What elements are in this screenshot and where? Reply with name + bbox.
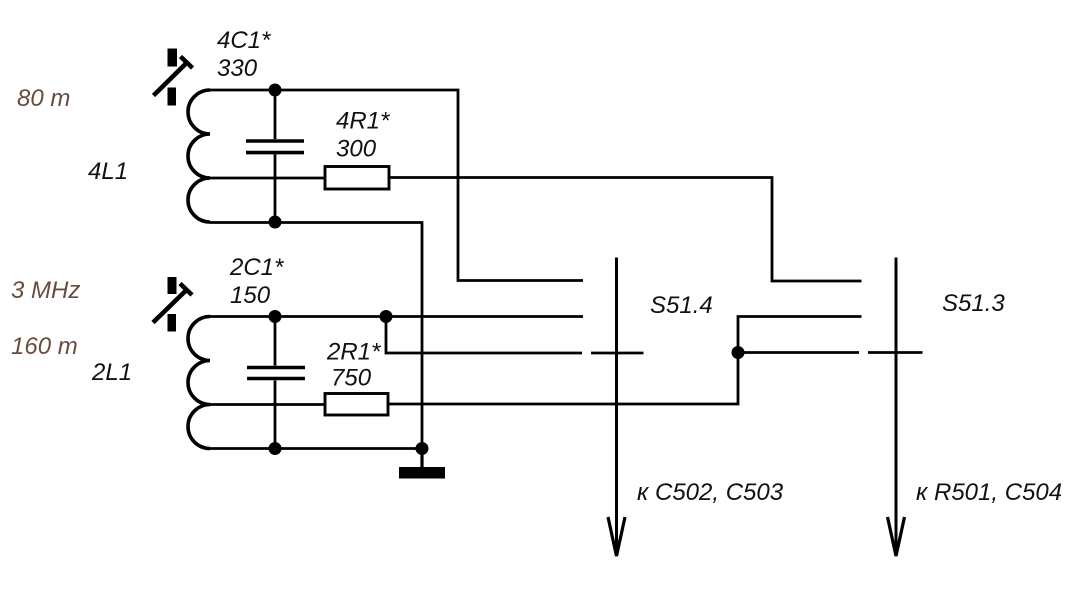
svg-text:750: 750 <box>331 365 372 392</box>
inductor 4L1 <box>188 90 210 222</box>
switch S51.3 wiper bar <box>868 351 923 354</box>
svg-text:4C1*: 4C1* <box>217 27 271 54</box>
svg-text:4R1*: 4R1* <box>336 108 390 135</box>
wire 2L1 tap to resistor 2R1 <box>210 403 326 406</box>
wire branch down to S51.4 wiper <box>386 317 582 354</box>
svg-text:80 m: 80 m <box>17 85 70 112</box>
node dot 4C1 bottom <box>269 216 282 229</box>
ground <box>399 449 445 479</box>
wire 4L1 top to S51.4 contact 1 <box>210 90 583 281</box>
wire 2L1 top to S51.4 contact 2 <box>210 315 583 318</box>
node dot 2C1 top <box>269 310 282 323</box>
switch S51.4 shaft arrow <box>608 258 625 557</box>
node dot S51.3 wiper <box>732 346 745 359</box>
node dot ground junction <box>416 442 429 455</box>
switch S51.3 shaft arrow <box>888 258 905 557</box>
trimmer core symbol of 2L1 <box>153 277 192 332</box>
wire 4L1 tap to resistor 4R1 <box>210 177 326 180</box>
svg-text:330: 330 <box>217 55 258 82</box>
svg-text:S51.3: S51.3 <box>942 290 1005 317</box>
node dot 2C1 bottom <box>269 442 282 455</box>
resistor 4R1 <box>325 167 389 190</box>
node dot 4C1 top <box>269 84 282 97</box>
wire node to S51.3 wiper <box>738 351 859 354</box>
switch S51.4 wiper bar <box>591 352 644 355</box>
wire 4L1 bottom to ground node <box>210 223 422 450</box>
capacitor 4C1 <box>246 90 304 222</box>
trimmer core symbol of 4L1 <box>154 49 193 106</box>
svg-text:300: 300 <box>336 136 377 163</box>
inductor 2L1 <box>188 317 210 449</box>
resistor 2R1 <box>325 394 388 416</box>
node dot branch <box>380 310 393 323</box>
svg-text:2L1: 2L1 <box>91 359 132 386</box>
wire 2L1 bottom to ground node <box>210 447 422 450</box>
svg-text:к C502, C503: к C502, C503 <box>637 479 784 506</box>
svg-text:к R501, C504: к R501, C504 <box>916 479 1062 506</box>
svg-text:4L1: 4L1 <box>88 158 128 185</box>
svg-text:2C1*: 2C1* <box>229 254 284 281</box>
capacitor 2C1 <box>247 317 305 449</box>
wire 4R1 to S51.3 contact 1 <box>389 178 862 282</box>
svg-text:3 MHz: 3 MHz <box>11 277 80 304</box>
svg-text:2R1*: 2R1* <box>326 339 381 366</box>
svg-text:160 m: 160 m <box>11 333 78 360</box>
svg-text:150: 150 <box>230 282 271 309</box>
wire 2R1 to S51.3 contact 2 <box>388 317 862 405</box>
svg-text:S51.4: S51.4 <box>650 292 713 319</box>
